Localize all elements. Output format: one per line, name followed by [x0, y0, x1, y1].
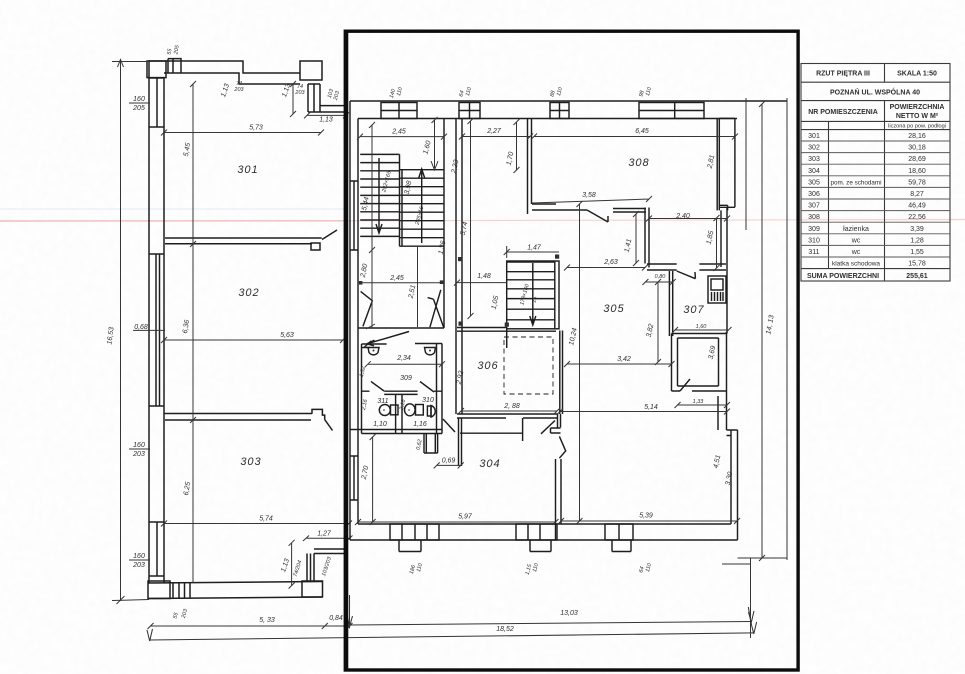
stair treads left flight [360, 154, 399, 236]
svg-text:306: 306 [477, 360, 498, 372]
marker small stair corner [505, 323, 509, 327]
svg-text:30,18: 30,18 [908, 145, 926, 152]
dim line 2,63 [564, 265, 648, 271]
table sub column divider [828, 121, 830, 268]
wall link to frame [320, 106, 346, 112]
svg-text:5, 33: 5, 33 [259, 617, 275, 624]
svg-text:309: 309 [808, 226, 820, 233]
toilet block right wall [437, 344, 443, 434]
table suma row line [801, 268, 950, 270]
svg-text:2,34: 2,34 [396, 355, 411, 362]
fraction line 160/205 [129, 102, 150, 104]
wall left inner [163, 78, 165, 583]
svg-text:5,97: 5,97 [458, 514, 473, 521]
svg-text:255,61: 255,61 [906, 273, 928, 280]
svg-text:5,39: 5,39 [639, 513, 653, 520]
closet 304 [424, 434, 438, 454]
door swing small room [680, 379, 690, 391]
wall 304/305 jog [551, 428, 561, 433]
table column divider [884, 64, 886, 83]
dim line 2,45 lower [361, 282, 442, 284]
svg-text:6,45: 6,45 [635, 128, 649, 135]
dim line 2,27 [459, 134, 533, 140]
svg-text:160: 160 [133, 442, 145, 449]
staircase hall bottom line [358, 327, 444, 329]
dim line 3,42 [564, 361, 675, 367]
svg-text:310: 310 [808, 237, 820, 244]
wall top inner line [358, 118, 737, 120]
bump below bottom 3 [612, 540, 631, 552]
svg-text:NETTO W M²: NETTO W M² [896, 113, 939, 120]
dim line 1,13 top right [304, 112, 349, 118]
wall 308 left [528, 119, 532, 214]
dim line 2,40 [646, 216, 730, 222]
svg-text:18,52: 18,52 [496, 626, 514, 633]
svg-text:310: 310 [422, 397, 434, 404]
small room right wall [719, 334, 727, 392]
svg-text:1,27: 1,27 [317, 531, 332, 538]
dim line 6,45 [531, 134, 738, 140]
svg-text:301: 301 [808, 133, 820, 140]
fraction line 0,68 [133, 329, 165, 331]
svg-text:203: 203 [132, 562, 145, 569]
dim line 1,33 [675, 402, 731, 408]
svg-text:306: 306 [808, 191, 820, 198]
svg-text:5,74: 5,74 [259, 516, 273, 523]
svg-text:305: 305 [808, 179, 820, 186]
svg-text:160: 160 [133, 553, 145, 560]
wall 307 left stub [669, 271, 672, 336]
dim line 10,24 vertical [577, 201, 583, 524]
svg-text:2,45: 2,45 [391, 129, 406, 136]
svg-text:46,49: 46,49 [908, 203, 926, 210]
dim line 16,53 vertical [120, 60, 122, 601]
dim line 1,13 vertical bottom [289, 540, 295, 589]
svg-text:205: 205 [132, 105, 145, 112]
dim line 1,41 vertical [633, 211, 639, 266]
wall top inner 301 [164, 73, 300, 84]
dim arrow 13,03 right [749, 611, 755, 623]
window 303 right vertical [307, 554, 314, 582]
dim line 5,74 [161, 521, 352, 527]
svg-text:15,78: 15,78 [908, 261, 926, 268]
svg-text:303: 303 [240, 456, 261, 468]
small room bottom wall [672, 386, 727, 391]
svg-text:311: 311 [808, 249, 819, 256]
frame border of highlighted area [345, 31, 798, 670]
svg-text:1,13: 1,13 [319, 117, 333, 124]
door swing 308/305 [587, 210, 608, 222]
toilet block left inner [361, 344, 363, 434]
wall 308 right [717, 118, 719, 210]
svg-text:302: 302 [238, 287, 259, 299]
extension line bottom horizontal [738, 557, 788, 559]
window left wall [350, 456, 358, 500]
svg-text:0,84: 0,84 [329, 615, 343, 622]
chimney top 55/205 [168, 59, 181, 73]
dim line 2,45 stairs [357, 134, 447, 140]
stair mid rail [400, 119, 445, 328]
dim line 1,60 vertical [431, 117, 438, 170]
dim line 2,88 [458, 408, 560, 414]
svg-text:203: 203 [132, 451, 145, 458]
wc 1 [379, 405, 390, 416]
svg-text:309: 309 [400, 375, 412, 382]
room 306 dashed skylight [504, 337, 553, 394]
small room walls [672, 334, 727, 392]
svg-text:łazienka: łazienka [843, 226, 869, 233]
bump below bottom 1 [399, 540, 421, 552]
dim line 1,48 [454, 280, 507, 286]
sink left [368, 348, 379, 355]
svg-text:3,39: 3,39 [910, 226, 924, 233]
wall right building below small room [718, 391, 727, 430]
wall 306/304 [457, 414, 558, 418]
corridor wall stub [459, 418, 462, 466]
extension line x349 [349, 595, 351, 628]
svg-text:203: 203 [294, 90, 305, 96]
door swing 306/304 [541, 421, 555, 434]
toilet block top wall [362, 344, 443, 348]
closet row below 306 [460, 418, 523, 441]
dim line 5,63 [161, 337, 346, 343]
table data row lines [801, 141, 950, 257]
dim square markers corridor [458, 257, 462, 261]
dim line 5,97 [355, 519, 559, 525]
window left 2 [149, 254, 164, 406]
dim line 5,33 / 0,84 [148, 623, 353, 629]
window top 4 [639, 103, 704, 119]
bottom wall outer [350, 539, 738, 541]
svg-text:1,28: 1,28 [910, 237, 924, 244]
dim line 18,52 [150, 633, 754, 640]
svg-text:304: 304 [479, 458, 500, 470]
dim line 5,14 [557, 409, 730, 415]
svg-text:28,16: 28,16 [908, 133, 926, 140]
svg-text:1,60: 1,60 [696, 324, 708, 330]
svg-text:POZNAŃ UL. WSPÓLNA 40: POZNAŃ UL. WSPÓLNA 40 [830, 88, 920, 97]
table outer border [801, 64, 950, 282]
window left wall upper [350, 181, 358, 250]
window bottom 3 [605, 524, 633, 540]
left building texts [106, 44, 341, 578]
svg-text:liczona po pow. podłogi: liczona po pow. podłogi [888, 123, 946, 129]
door swing 301/302 [322, 230, 337, 240]
svg-text:160: 160 [133, 96, 145, 103]
svg-text:NR POMIESZCZENIA: NR POMIESZCZENIA [808, 109, 878, 116]
table header texts [808, 71, 946, 130]
svg-text:5,14: 5,14 [644, 404, 658, 411]
wc 3 [427, 406, 431, 416]
wall left inner [357, 119, 359, 525]
svg-text:1,48: 1,48 [477, 273, 491, 280]
balcony 308 [719, 118, 735, 210]
dim line 14,13 vertical [759, 101, 765, 561]
corner block bottom right [302, 581, 323, 597]
dim line 2,34 toilets [365, 361, 445, 367]
extension line right margin [786, 98, 788, 560]
extension line bottom right [750, 558, 752, 638]
fraction line 160/203 b [129, 559, 150, 561]
door swing toilets entry [364, 332, 409, 348]
dim line 1,70 vertical [514, 119, 520, 173]
extension line landing center [417, 246, 419, 327]
svg-text:307: 307 [683, 304, 704, 316]
svg-text:pom. ze schodami: pom. ze schodami [830, 179, 881, 186]
corner block bottom left [148, 581, 170, 599]
door swing corridor/304 [443, 419, 455, 432]
door swing stair hall b [428, 290, 444, 328]
wall 305 right upper [645, 208, 649, 268]
dim line vertical interior rooms [192, 84, 194, 583]
dim line 5,74 corridor vertical [468, 118, 474, 319]
left building dimensions [112, 60, 353, 605]
svg-text:59,78: 59,78 [908, 179, 926, 186]
landing bottom wall [457, 328, 556, 349]
svg-text:311: 311 [377, 398, 388, 405]
dim line 3,82 vertical [655, 279, 661, 365]
svg-text:0,69: 0,69 [442, 458, 456, 465]
dim line 5,73 [161, 130, 324, 136]
svg-text:307: 307 [808, 203, 820, 210]
shaft 307 [708, 276, 726, 303]
dim line 5,44 vertical [366, 122, 375, 329]
svg-text:303: 303 [808, 156, 820, 163]
svg-text:1,10: 1,10 [373, 421, 387, 428]
door swing 304/305 [559, 436, 565, 458]
dim line 1,85 vertical [714, 215, 720, 271]
svg-text:wc: wc [851, 249, 861, 256]
svg-text:302: 302 [808, 145, 820, 152]
svg-text:2,45: 2,45 [389, 275, 404, 282]
wc 2 [405, 404, 416, 416]
door swing 307 [677, 271, 696, 279]
window top 2 [459, 103, 480, 119]
sink right [425, 348, 436, 355]
svg-text:203: 203 [233, 87, 244, 93]
door jamb 301/302 [311, 243, 320, 250]
dim arrow 18,52 left [147, 629, 153, 641]
svg-text:0,80: 0,80 [655, 274, 667, 280]
small stair arrow [530, 263, 536, 325]
svg-text:SUMA POWIERZCHNI: SUMA POWIERZCHNI [807, 273, 879, 280]
svg-text:308: 308 [628, 157, 649, 169]
svg-text:3,42: 3,42 [617, 356, 631, 363]
window bottom 1 [390, 524, 439, 540]
svg-text:304: 304 [808, 168, 820, 175]
bump below bottom 2 [530, 540, 551, 552]
svg-text:2, 88: 2, 88 [503, 403, 520, 410]
svg-text:28,69: 28,69 [908, 156, 926, 163]
window top 1 [381, 103, 417, 119]
table data texts [807, 133, 928, 280]
table header row lines [801, 81, 950, 83]
wall 308/305 [532, 204, 646, 212]
svg-text:1,16: 1,16 [413, 421, 427, 428]
svg-text:3,58: 3,58 [582, 192, 596, 199]
svg-text:305: 305 [603, 303, 624, 315]
wall top outer 301 [148, 61, 300, 73]
fraction line 160/203 a [129, 448, 150, 450]
small stair treads [507, 261, 555, 329]
stair treads right flight [400, 170, 445, 247]
wall right jog [718, 430, 738, 540]
dim line 0,80 [642, 279, 675, 285]
dim line 5,39 [558, 518, 740, 524]
svg-text:18,60: 18,60 [908, 168, 926, 175]
wall left outer [148, 61, 150, 583]
window left 3 [149, 522, 164, 576]
svg-text:308: 308 [808, 214, 820, 221]
svg-text:0,68: 0,68 [134, 324, 148, 331]
dim tick top right vertical [290, 81, 296, 117]
toilet stall doors [371, 382, 434, 393]
dim line 1,47 small stair [504, 246, 559, 258]
window right wall 301 [308, 84, 320, 112]
wall 304/305 upper stub [558, 414, 561, 428]
door swing stair hall a [361, 291, 373, 326]
small stair box [507, 261, 559, 329]
svg-text:1,55: 1,55 [910, 249, 924, 256]
window top 3 [550, 103, 569, 119]
svg-text:301: 301 [237, 164, 258, 176]
dim line 3,58 [532, 196, 652, 203]
scan artifact pink line [0, 209, 965, 221]
corner block top left [147, 61, 166, 78]
svg-text:13,03: 13,03 [560, 610, 578, 617]
extension line balcony [745, 98, 747, 230]
toilet block bottom wall [350, 430, 442, 434]
wall bottom outer [148, 582, 322, 584]
wall divider 301/302 [165, 238, 322, 244]
svg-text:POWIERZCHNIA: POWIERZCHNIA [890, 104, 945, 111]
window left 1 [149, 78, 164, 127]
stair arrow up [421, 171, 423, 243]
svg-text:2,63: 2,63 [603, 259, 618, 266]
wall divider 302/303 [164, 414, 312, 421]
wall bottom inner [148, 597, 322, 599]
svg-text:SKALA 1:50: SKALA 1:50 [897, 71, 937, 78]
wall top outer line [350, 100, 787, 102]
window bottom 55/203 [173, 583, 190, 599]
door jamb 302/303 [312, 409, 325, 419]
svg-text:8,27: 8,27 [910, 191, 924, 198]
svg-text:2,27: 2,27 [486, 128, 502, 135]
svg-text:5,73: 5,73 [249, 125, 263, 132]
wall 305/307 horizontal [647, 264, 726, 270]
bottom wall inner [358, 523, 731, 525]
dim line 1,27 [303, 536, 353, 542]
wall step 303 horizontal pair [314, 549, 345, 554]
wall 305 left [560, 331, 563, 415]
dim arrow 18,52 right [751, 622, 757, 634]
wall right outer 307 section [721, 207, 727, 333]
wall block top right 301 [300, 61, 322, 80]
extension line corner connector [722, 563, 751, 565]
svg-text:RZUT PIĘTRA III: RZUT PIĘTRA III [816, 71, 870, 78]
svg-text:5,63: 5,63 [280, 332, 294, 339]
toilet stall wall mid [362, 391, 443, 433]
dim line 1,60 small room [672, 327, 732, 333]
svg-text:1,33: 1,33 [693, 399, 705, 405]
stair arrow down [378, 158, 380, 231]
svg-text:22,56: 22,56 [908, 214, 926, 221]
staircase right wall [456, 119, 462, 414]
svg-text:1,47: 1,47 [527, 245, 542, 252]
door swing 302/303 [325, 420, 333, 431]
window bottom 2 [516, 524, 557, 540]
dim line 0,69 closet [434, 462, 464, 468]
wall left outer [349, 101, 351, 540]
svg-text:klatka schodowa: klatka schodowa [832, 261, 880, 268]
dim line 13,03 [350, 622, 752, 626]
svg-text:wc: wc [851, 237, 861, 244]
svg-text:2,40: 2,40 [675, 213, 690, 220]
wall 304/305 lower [556, 459, 562, 540]
dim line 2,70 vertical [370, 434, 376, 525]
